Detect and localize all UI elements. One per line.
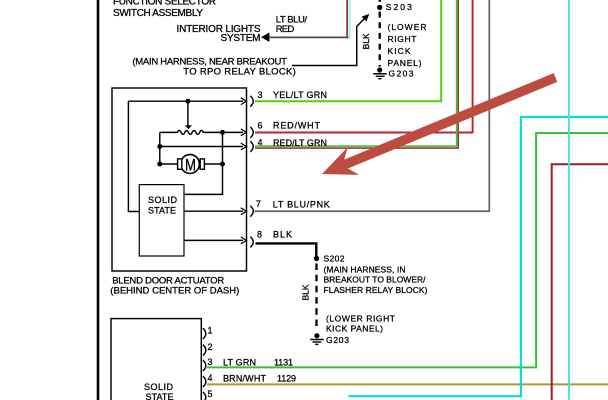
svg-text:7: 7 xyxy=(256,199,261,209)
callout arrowhead xyxy=(362,14,370,22)
svg-text:BREAKOUT TO BLOWER/: BREAKOUT TO BLOWER/ xyxy=(324,275,427,285)
svg-text:RED/LT GRN: RED/LT GRN xyxy=(273,138,327,148)
svg-text:PANEL): PANEL) xyxy=(388,58,422,68)
wire pin8 internal xyxy=(184,239,243,241)
wire LT BLU/RED vertical cyan part xyxy=(348,0,350,38)
svg-text:G203: G203 xyxy=(326,335,349,345)
pin 1 connector (lower) xyxy=(203,328,206,339)
svg-text:(LOWER RIGHT: (LOWER RIGHT xyxy=(326,314,395,324)
svg-text:TO RPO RELAY BLOCK): TO RPO RELAY BLOCK) xyxy=(183,66,295,77)
solid state box (blend door actuator) xyxy=(139,185,184,256)
wire CYAN right bent xyxy=(349,117,608,396)
svg-text:1129: 1129 xyxy=(277,373,296,383)
wire left vertical to solid state xyxy=(128,101,139,211)
svg-text:SWITCH ASSEMBLY: SWITCH ASSEMBLY xyxy=(113,8,203,19)
svg-text:RED: RED xyxy=(276,24,295,35)
wire RED/LT GRN pin4 (red part) xyxy=(255,0,458,148)
wire RED/LT GRN pin4 (green part) xyxy=(255,0,457,146)
node motor right xyxy=(220,162,225,167)
ground G203 lower xyxy=(314,333,319,338)
big red arrow xyxy=(322,73,557,175)
wire BRN/WHT 1129 xyxy=(207,383,608,385)
wiper arrow to resistor xyxy=(187,101,189,125)
wire pin3 internal xyxy=(128,100,243,102)
svg-text:5: 5 xyxy=(208,389,213,399)
svg-text:(MAIN HARNESS, IN: (MAIN HARNESS, IN xyxy=(324,264,406,274)
svg-text:(LOWER: (LOWER xyxy=(388,22,427,32)
node S202 xyxy=(314,256,319,261)
svg-text:2: 2 xyxy=(208,342,213,352)
svg-text:3: 3 xyxy=(258,90,263,100)
pin 3 connector (lower) xyxy=(203,360,206,371)
svg-text:8: 8 xyxy=(257,230,262,240)
callout line to S203 xyxy=(292,18,365,65)
pin 5 connector (lower) xyxy=(203,392,206,400)
wire pin7 internal xyxy=(184,210,243,212)
svg-text:STATE: STATE xyxy=(148,206,176,216)
wire DK RED right bent xyxy=(552,164,608,400)
svg-text:LT GRN: LT GRN xyxy=(223,357,256,367)
wire CYAN vertical full xyxy=(568,0,570,400)
ground G203 upper xyxy=(377,67,382,72)
svg-text:YEL/LT GRN: YEL/LT GRN xyxy=(273,90,327,100)
node motor left xyxy=(157,162,162,167)
svg-text:BLK: BLK xyxy=(361,33,371,49)
wire LT GRN 1131 xyxy=(207,133,608,367)
blend door actuator box xyxy=(112,88,247,271)
pin 4 connector xyxy=(241,143,247,150)
wire motor leads xyxy=(160,163,177,165)
svg-text:FUNCTION SELECTOR: FUNCTION SELECTOR xyxy=(113,0,216,7)
pin 6 connector xyxy=(241,129,247,136)
svg-text:BLK: BLK xyxy=(301,284,311,300)
node pin4/left vertical xyxy=(157,144,162,149)
svg-text:G203: G203 xyxy=(389,69,414,79)
svg-text:SYSTEM: SYSTEM xyxy=(221,33,261,44)
wire BLK dashed S202 to ground xyxy=(315,264,317,330)
svg-text:M: M xyxy=(185,156,196,175)
resistor (potentiometer) xyxy=(160,131,243,135)
solid state module box (lower) xyxy=(111,319,201,400)
pin 2 connector (lower) xyxy=(203,345,206,356)
pin 8 connector xyxy=(241,237,247,244)
wire LT BLU/PNK pin7 xyxy=(255,0,490,211)
svg-text:(BEHIND CENTER OF DASH): (BEHIND CENTER OF DASH) xyxy=(110,285,239,296)
svg-text:KICK PANEL): KICK PANEL) xyxy=(326,324,383,334)
wire LT BLU/RED vertical red part xyxy=(346,0,348,38)
svg-text:BRN/WHT: BRN/WHT xyxy=(223,373,267,383)
svg-text:S202: S202 xyxy=(324,254,345,264)
wire right vertical to solid state xyxy=(184,132,223,194)
node resistor right xyxy=(220,130,225,135)
pin 3 connector xyxy=(241,98,247,105)
component edge line (left, function selector switch assembly) xyxy=(97,0,100,400)
svg-text:3: 3 xyxy=(208,357,213,367)
wire left vertical x=159.8 xyxy=(159,132,161,164)
motor M1 xyxy=(181,155,200,174)
pin 7 connector xyxy=(241,208,247,215)
svg-text:RIGHT: RIGHT xyxy=(388,34,417,44)
svg-text:FLASHER RELAY BLOCK): FLASHER RELAY BLOCK) xyxy=(324,285,428,295)
wire pin4 internal xyxy=(160,146,243,148)
wire YEL/LT GRN pin3 xyxy=(255,0,441,101)
svg-text:BLK: BLK xyxy=(273,230,292,240)
svg-text:SOLID: SOLID xyxy=(144,382,174,392)
svg-text:SOLID: SOLID xyxy=(148,195,178,205)
arrowhead to interior lights system xyxy=(261,33,269,42)
svg-text:1: 1 xyxy=(208,326,213,336)
svg-text:RED/WHT: RED/WHT xyxy=(273,121,321,131)
wire BLK pin8 xyxy=(256,243,317,256)
svg-text:6: 6 xyxy=(258,121,263,131)
svg-text:1131: 1131 xyxy=(274,357,293,367)
node junction on pin3 wire xyxy=(185,99,190,104)
node S203 xyxy=(379,0,381,2)
svg-text:LT BLU/PNK: LT BLU/PNK xyxy=(273,199,330,209)
svg-text:KICK: KICK xyxy=(388,46,411,56)
wire RED/WHT pin6 xyxy=(255,0,473,133)
svg-text:STATE: STATE xyxy=(146,392,174,400)
wire BLK dashed to ground xyxy=(379,12,381,67)
wire LT BLU/RED horizontal xyxy=(269,36,350,38)
pin 4 connector (lower) xyxy=(203,376,206,387)
svg-text:4: 4 xyxy=(208,373,213,383)
